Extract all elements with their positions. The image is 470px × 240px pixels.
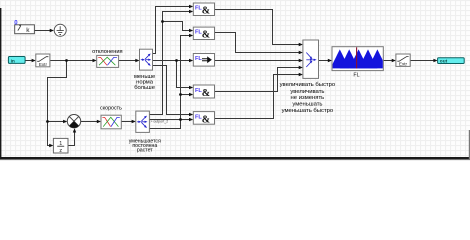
wire demux1 out1 up to rule1 in1 <box>153 7 191 54</box>
wire branch down from junction J1 <box>48 61 67 146</box>
wire MF otklonenija to demux1 <box>119 60 137 62</box>
wire k to ground <box>35 30 51 32</box>
svg-text:уменьшать быстро: уменьшать быстро <box>282 108 334 114</box>
svg-text:больше: больше <box>134 85 155 91</box>
junction J2 <box>46 120 49 123</box>
block 1/z unit delay <box>53 138 68 154</box>
block Extr 2 <box>396 54 410 67</box>
rule block 3 FL implication <box>193 54 214 67</box>
junction rule5 branch <box>179 118 182 121</box>
rule block 5 FL AND <box>193 112 214 126</box>
wire MF FL to Extr2 <box>384 60 393 62</box>
wire rule2 out to aggregator in2 <box>215 33 300 53</box>
wire demux1 out2 norma to rule3 <box>153 60 191 62</box>
svg-text:z: z <box>59 148 62 154</box>
wire rule5 out to aggregator in5 <box>215 75 300 119</box>
inport in <box>8 57 25 65</box>
svg-text:увеличивать: увеличивать <box>290 89 324 95</box>
wire aggregator to MF FL <box>319 60 329 62</box>
wire Extr2 to out <box>411 60 435 62</box>
window border right <box>469 130 470 159</box>
wire rule1 out to aggregator in1 <box>215 10 300 45</box>
ground terminator circle <box>54 24 66 36</box>
wire rule3 out to aggregator in3 <box>215 60 300 62</box>
canvas background grid <box>0 0 470 161</box>
svg-text:&: & <box>202 88 210 99</box>
wire multiplier to MF skorost <box>81 121 98 123</box>
block Extr 1 <box>36 54 50 67</box>
svg-text:Extr: Extr <box>39 62 48 67</box>
outport out <box>438 58 465 65</box>
demux2 fan block <box>136 111 150 132</box>
wire demux2 out2 to rule5 in2 <box>150 119 191 121</box>
svg-text:&: & <box>202 114 210 125</box>
MF block FL output <box>330 47 386 71</box>
aggregator block <box>303 40 319 78</box>
wire rule4 out to aggregator in4 <box>215 68 300 92</box>
wire demux1 out3 down to rule5 in1 <box>153 66 191 115</box>
block k (slider gain) <box>15 24 35 34</box>
svg-text:не изменять: не изменять <box>291 95 325 101</box>
rule block 1 FL AND <box>193 3 214 17</box>
svg-text:&: & <box>202 6 210 17</box>
wire branch norma down to rule4 in1 <box>177 61 191 88</box>
svg-text:растет: растет <box>137 148 153 154</box>
svg-text:Extr: Extr <box>399 62 408 67</box>
wire 1/z out up to multiplier bottom <box>69 132 75 146</box>
rule block 4 FL AND <box>193 85 214 99</box>
junction on demux2out1 line <box>161 20 164 23</box>
svg-text:уменьшать: уменьшать <box>292 102 322 108</box>
window border bottom <box>0 157 470 160</box>
junction rule4 branch <box>179 93 182 96</box>
arrowheads <box>50 29 54 32</box>
window border left <box>0 8 1 159</box>
MF block otklonenija <box>97 55 119 67</box>
wire in to Extr <box>26 60 33 62</box>
demux1 fan block <box>140 49 153 70</box>
wire branch J2 to multiplier <box>48 121 65 123</box>
svg-text:отклонения: отклонения <box>92 49 122 55</box>
wire Extr to MF otklonenija with junction <box>50 60 94 62</box>
rule block 2 FL AND <box>193 27 214 41</box>
wire branch to rule4 in2 <box>181 94 191 96</box>
wire MF skorost to demux2 <box>122 121 133 123</box>
svg-text:> outport_2: > outport_2 <box>150 120 168 124</box>
svg-text:скорость: скорость <box>100 105 122 111</box>
wire demux2 out3 up to rule2 in2 <box>150 36 191 129</box>
svg-text:&: & <box>202 30 210 41</box>
wire demux2 out1 up to rule1 in2 and rule2 in1 <box>150 12 191 115</box>
svg-text:in: in <box>11 58 15 64</box>
MF block skorost <box>101 115 121 129</box>
svg-text:FL: FL <box>353 73 359 79</box>
wire branch to rule2 in1 <box>163 22 191 31</box>
junction on norma line <box>175 59 178 62</box>
junction J1 <box>65 59 68 62</box>
svg-text:out: out <box>440 58 448 64</box>
svg-text:увеличивать быстро: увеличивать быстро <box>280 82 336 88</box>
multiplier circle <box>67 115 80 128</box>
svg-text:FL: FL <box>195 56 202 62</box>
